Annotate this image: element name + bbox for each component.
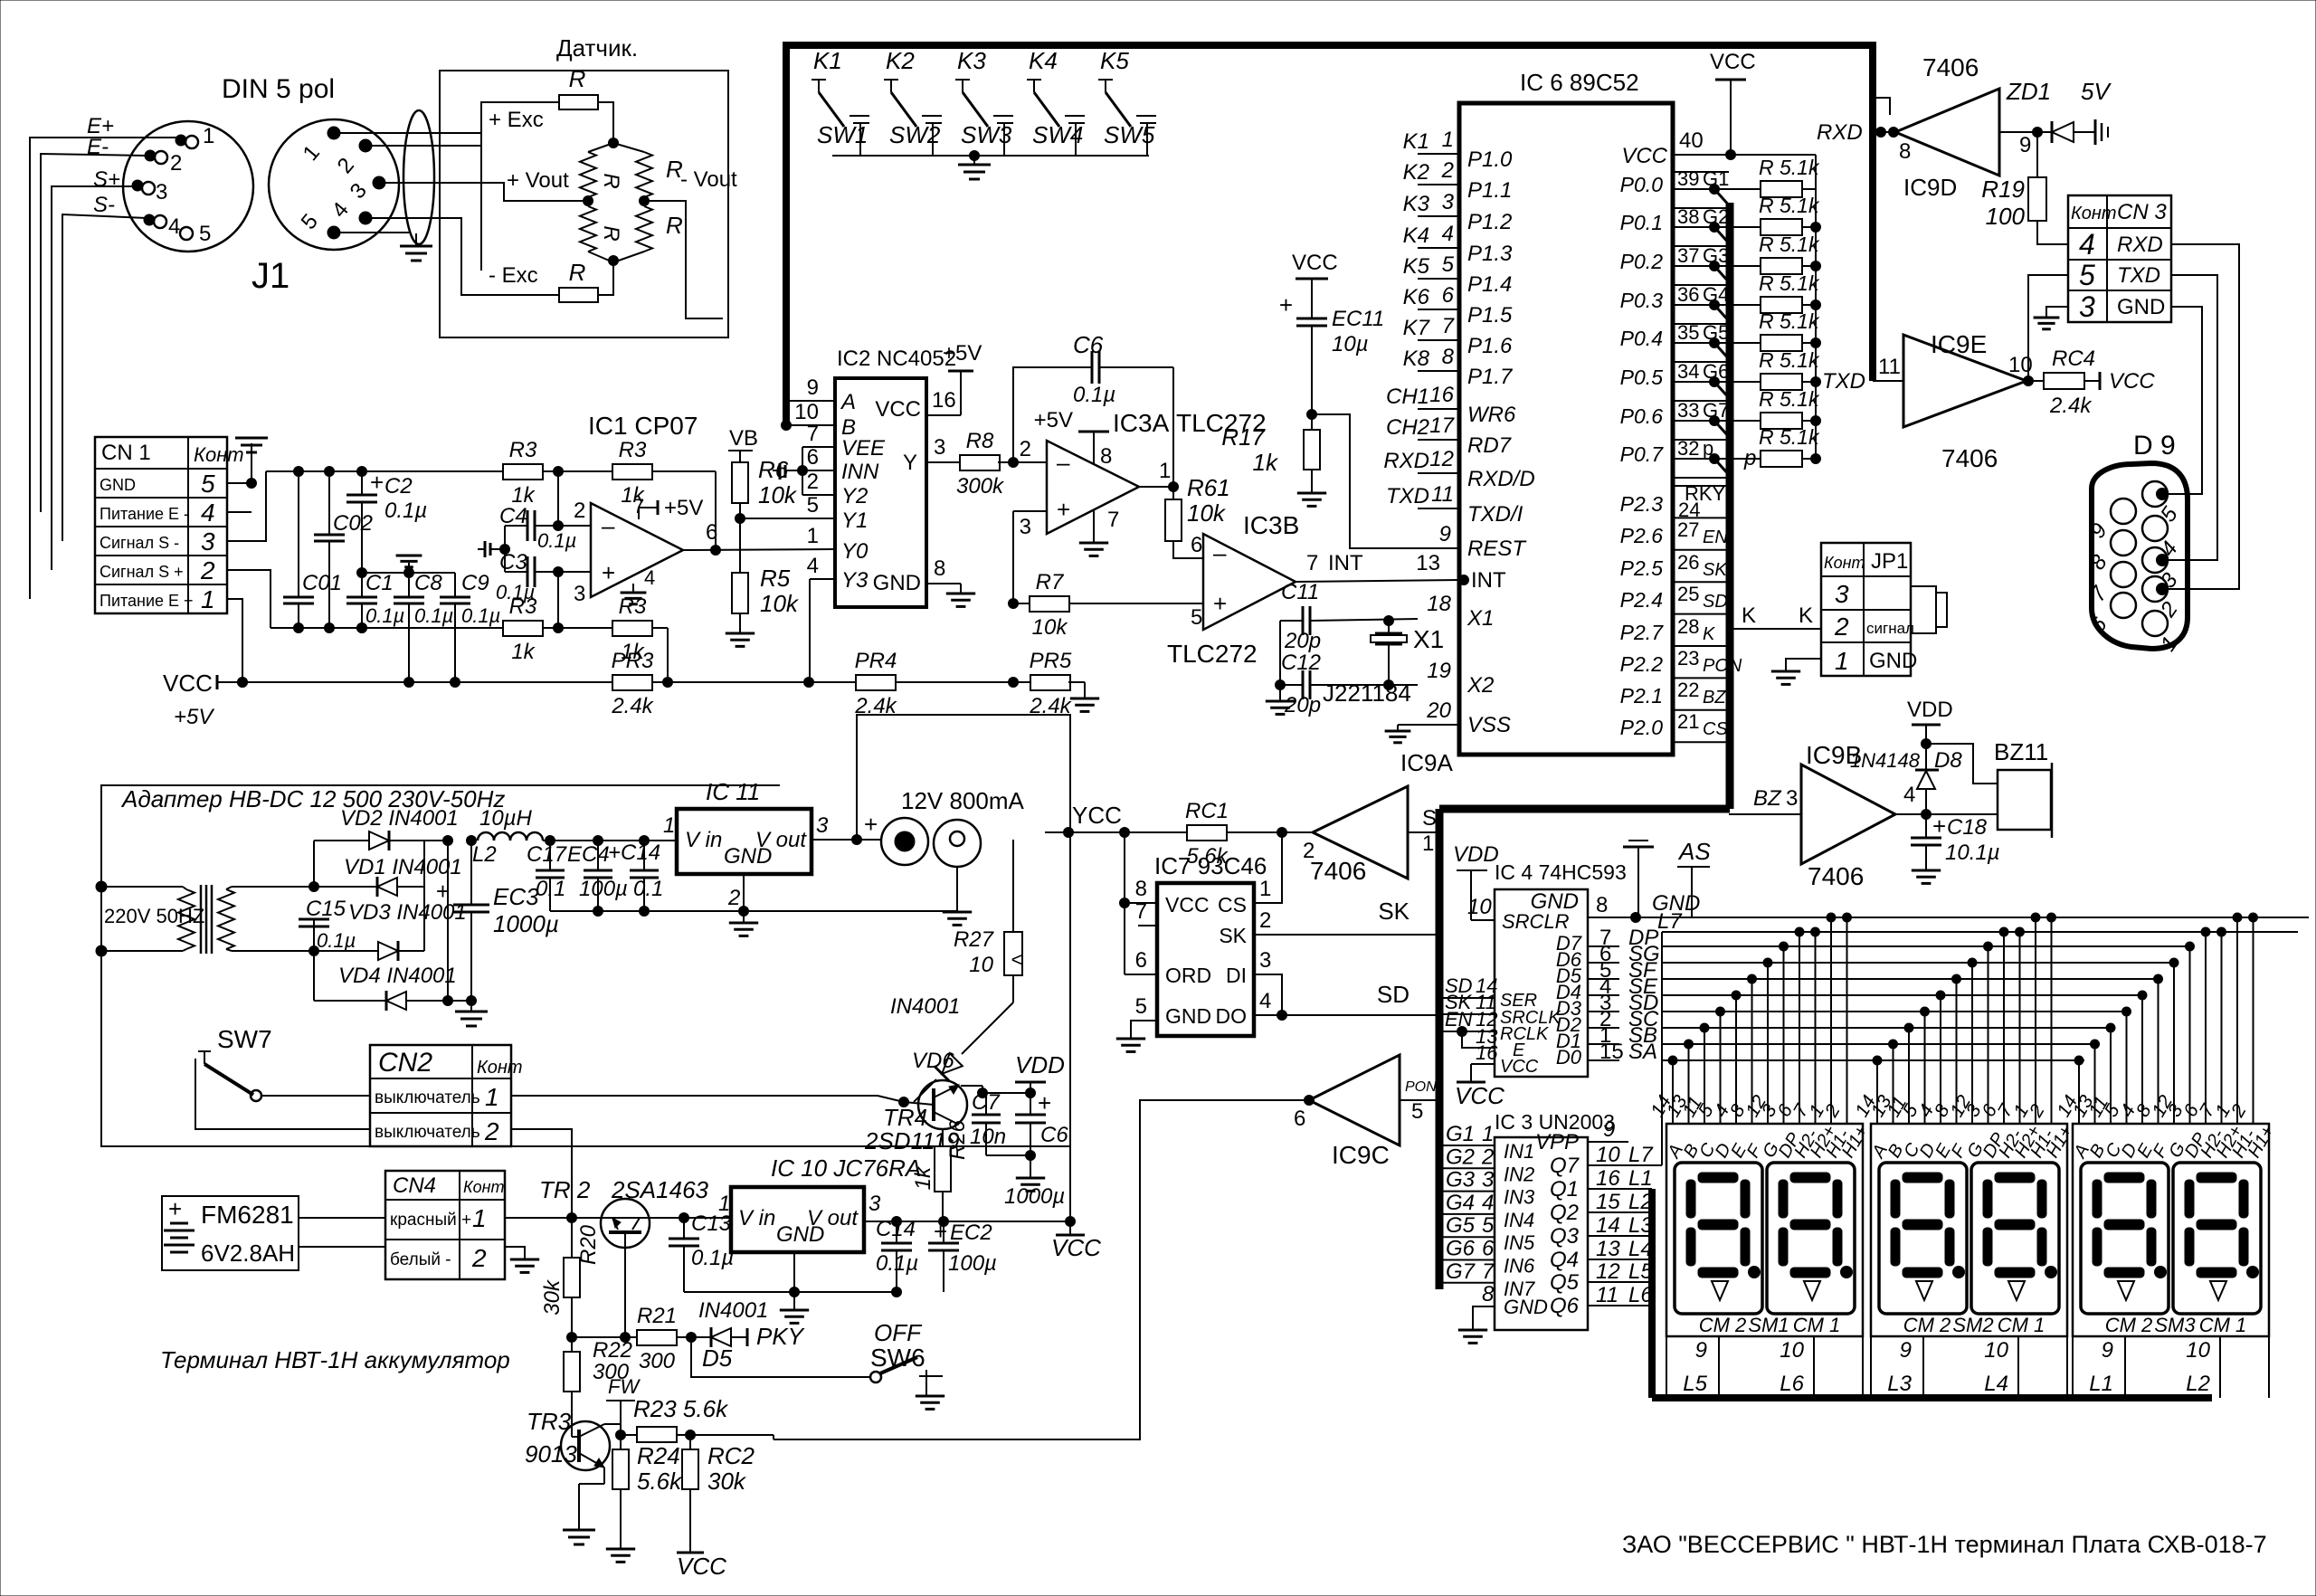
svg-text:C9: C9: [461, 571, 489, 595]
svg-text:K3: K3: [1403, 192, 1430, 216]
svg-text:R24: R24: [637, 1442, 680, 1469]
SW7 return wire: [195, 1059, 370, 1129]
capacitor C14 psu: [608, 836, 663, 917]
svg-text:VPP: VPP: [1535, 1130, 1579, 1154]
svg-text:7: 7: [1482, 1259, 1495, 1284]
display group 1 CM labels: [1699, 1314, 1841, 1336]
switch SW4 / key K4: [1027, 47, 1085, 156]
svg-text:R: R: [569, 259, 586, 286]
ground near IC4: [1623, 841, 1654, 917]
svg-text:–: –: [1213, 539, 1227, 566]
svg-text:GND: GND: [1165, 1004, 1211, 1028]
7-segment digit 6: [2173, 1163, 2261, 1314]
svg-text:0.1µ: 0.1µ: [537, 529, 576, 552]
svg-text:34: 34: [1677, 360, 1699, 383]
svg-text:3: 3: [574, 582, 585, 606]
svg-text:Q6: Q6: [1550, 1294, 1580, 1318]
IC4 74HC593 box: [1495, 889, 1588, 1077]
svg-text:C2: C2: [384, 474, 413, 499]
buzzer BZ11: [1994, 738, 2052, 838]
svg-text:D0: D0: [1556, 1046, 1582, 1069]
resistor R 5.1k row G2: [1759, 194, 1821, 235]
svg-text:G2: G2: [1446, 1145, 1475, 1169]
thick bus horizontal: [1439, 805, 1730, 813]
resistor R3 second: [612, 438, 716, 508]
MCU pin 38 G2 / P0.1: [1620, 205, 1761, 245]
svg-text:TXD: TXD: [1386, 484, 1429, 508]
svg-text:C4: C4: [499, 504, 527, 528]
IC10 JC76RA box: [718, 1154, 921, 1252]
svg-text:OFF: OFF: [874, 1319, 923, 1346]
svg-text:8: 8: [1100, 444, 1112, 469]
resistor R 5.1k row G7: [1759, 387, 1821, 429]
svg-text:IN4001: IN4001: [698, 1298, 768, 1323]
svg-text:0.1µ: 0.1µ: [691, 1246, 734, 1270]
svg-text:SD: SD: [1703, 592, 1728, 612]
svg-text:IC3A: IC3A: [1113, 409, 1170, 437]
svg-text:GND: GND: [100, 476, 136, 494]
connector table CN3: [2068, 195, 2171, 323]
svg-text:10k: 10k: [1032, 615, 1069, 640]
svg-text:PR4: PR4: [855, 649, 897, 673]
svg-text:C01: C01: [302, 571, 342, 595]
svg-text:+: +: [934, 1218, 947, 1245]
svg-text:K1: K1: [813, 47, 842, 74]
svg-text:R: R: [599, 225, 623, 241]
connector table CN1: [95, 437, 244, 613]
svg-text:10n: 10n: [970, 1125, 1006, 1149]
svg-text:R 5.1k: R 5.1k: [1759, 348, 1820, 372]
IC2 pin Y0: [807, 524, 868, 564]
switch SW5 / key K5: [1098, 47, 1156, 156]
svg-text:VD6: VD6: [912, 1049, 954, 1073]
display group 2 pin wires: [1851, 913, 2076, 1162]
svg-text:R19: R19: [1981, 176, 2025, 203]
svg-text:FM6281: FM6281: [201, 1201, 294, 1229]
capacitor C12: [1280, 651, 1418, 717]
svg-text:R27: R27: [954, 927, 995, 952]
svg-text:IC 4 74HC593: IC 4 74HC593: [1495, 860, 1627, 884]
wire CN2 pin1 to TR4 base: [511, 1095, 878, 1097]
svg-text:+: +: [1057, 496, 1070, 523]
svg-text:38: 38: [1677, 205, 1699, 228]
svg-text:G2: G2: [1703, 205, 1729, 228]
node C1/C8 gnd rail: [357, 568, 456, 578]
svg-text:+: +: [370, 469, 384, 496]
wire pin4 to -Exc: [365, 218, 559, 295]
svg-text:0.1µ: 0.1µ: [496, 581, 535, 603]
svg-text:P0.7: P0.7: [1620, 442, 1665, 466]
capacitor C17: [527, 841, 568, 911]
shield ground: [400, 233, 432, 261]
resistor R5: [732, 565, 800, 617]
svg-text:AS: AS: [1677, 838, 1711, 865]
svg-text:P1.3: P1.3: [1467, 242, 1513, 266]
svg-text:R22: R22: [593, 1338, 632, 1363]
svg-text:Q1: Q1: [1550, 1177, 1579, 1202]
IC7 gnd: [1116, 1021, 1157, 1051]
svg-text:0.1µ: 0.1µ: [384, 499, 427, 523]
svg-text:R 5.1k: R 5.1k: [1759, 425, 1820, 449]
svg-text:1: 1: [1422, 831, 1434, 856]
svg-text:R 5.1k: R 5.1k: [1759, 194, 1820, 217]
svg-text:K2: K2: [1403, 160, 1429, 185]
svg-text:6: 6: [1294, 1107, 1305, 1131]
CN3 gnd: [2034, 307, 2068, 329]
svg-text:8: 8: [1482, 1282, 1495, 1306]
inverter IC9D 7406: [1895, 89, 1999, 176]
svg-text:+ Vout: + Vout: [507, 168, 569, 193]
svg-text:VCC: VCC: [2109, 369, 2155, 394]
svg-text:PKY: PKY: [756, 1323, 805, 1350]
svg-text:9: 9: [1695, 1338, 1707, 1363]
svg-text:RC2: RC2: [707, 1442, 755, 1469]
wire pin5: [334, 232, 409, 233]
IC7 SK wire: [1254, 898, 1439, 935]
svg-text:CS: CS: [1703, 719, 1728, 739]
svg-text:0.1µ: 0.1µ: [1073, 383, 1115, 407]
capacitor C6 feedback: [1013, 331, 1173, 462]
svg-text:IN2: IN2: [1504, 1163, 1534, 1185]
svg-text:IC1 CP07: IC1 CP07: [588, 412, 698, 440]
svg-text:P1.5: P1.5: [1467, 303, 1513, 328]
IC7 93C46 box: [1157, 883, 1254, 1036]
svg-text:DIN 5 pol: DIN 5 pol: [222, 74, 335, 104]
resistor R 5.1k row G1: [1759, 156, 1820, 197]
svg-text:100µ: 100µ: [579, 877, 628, 901]
svg-text:1N4148: 1N4148: [1850, 749, 1921, 772]
svg-text:16: 16: [1429, 383, 1454, 407]
svg-text:5.6k: 5.6k: [637, 1468, 683, 1495]
svg-text:L2: L2: [2186, 1372, 2210, 1396]
svg-text:GND: GND: [776, 1222, 824, 1247]
MCU pin 36 G4 / P0.3: [1620, 283, 1761, 323]
svg-text:красный +: красный +: [390, 1211, 471, 1230]
IC9A to bus stub: [1408, 806, 1439, 856]
svg-text:12V 800mA: 12V 800mA: [901, 787, 1025, 814]
svg-text:R61: R61: [1187, 474, 1230, 501]
svg-text:10.1µ: 10.1µ: [1945, 841, 2000, 865]
svg-text:8: 8: [1899, 139, 1911, 164]
svg-text:S+: S+: [93, 167, 120, 192]
battery FM6281: [162, 1195, 299, 1270]
IC2 pin Y/3 and R8: [903, 429, 1047, 499]
svg-text:7406: 7406: [1310, 857, 1366, 885]
svg-text:3: 3: [816, 813, 829, 838]
svg-text:21: 21: [1677, 710, 1699, 733]
svg-text:K1: K1: [1403, 129, 1429, 154]
resistor column right bus: [1815, 155, 1817, 459]
svg-text:+ Exc: + Exc: [489, 108, 544, 132]
resistor PR3: [611, 649, 856, 718]
svg-text:Конт: Конт: [2071, 204, 2117, 223]
svg-text:1000µ: 1000µ: [1004, 1184, 1065, 1209]
VDD symbol TR4: [1015, 1051, 1065, 1093]
svg-text:R23 5.6k: R23 5.6k: [633, 1395, 729, 1422]
IC2 pin A: [786, 375, 856, 414]
svg-text:4: 4: [1259, 989, 1271, 1013]
svg-text:16: 16: [1596, 1166, 1620, 1191]
svg-text:CM 1: CM 1: [2199, 1314, 2247, 1336]
svg-text:27: 27: [1677, 518, 1699, 541]
svg-text:VCC: VCC: [677, 1553, 726, 1580]
svg-text:Датчик.: Датчик.: [556, 34, 638, 62]
svg-text:EC11: EC11: [1332, 307, 1384, 331]
svg-text:VD1 IN4001: VD1 IN4001: [344, 855, 462, 879]
inverter IC9B 7406: [1801, 765, 1895, 864]
CN1 ground: [227, 438, 268, 483]
svg-text:G3: G3: [1703, 244, 1729, 267]
display group 1 pin wires: [1647, 913, 1872, 1162]
wire YCC: [1045, 802, 1187, 838]
svg-text:10: 10: [1984, 1338, 2008, 1363]
svg-text:16: 16: [1476, 1041, 1498, 1064]
battery wires: [299, 1218, 385, 1247]
7-segment digit 1: [1675, 1163, 1762, 1314]
connector J1 left circle: [123, 121, 253, 252]
capacitor C7: [970, 1090, 1006, 1155]
svg-text:K4: K4: [1403, 223, 1429, 248]
svg-text:2.4k: 2.4k: [611, 694, 654, 718]
svg-text:SW5: SW5: [1104, 121, 1155, 148]
svg-text:2: 2: [1834, 613, 1849, 641]
resistor PR5: [1029, 649, 1085, 718]
svg-text:–: –: [1057, 449, 1070, 476]
svg-text:G7: G7: [1703, 399, 1729, 422]
IC4 pin D6 / bus SG: [1556, 942, 2174, 971]
signal bottom rail: [271, 623, 503, 633]
svg-text:GND: GND: [1531, 889, 1579, 914]
bridge top node: [609, 138, 619, 148]
svg-text:IC 10 JC76RA: IC 10 JC76RA: [771, 1154, 921, 1182]
svg-text:VCC: VCC: [1455, 1082, 1504, 1109]
svg-text:0.1µ: 0.1µ: [365, 604, 404, 627]
TR2 wire through: [601, 1213, 731, 1223]
svg-text:SW4: SW4: [1032, 121, 1083, 148]
IC2 pin VCC/16: [875, 341, 982, 422]
wire pin3 to +Vout: [379, 182, 440, 184]
wire K to JP1: [1729, 603, 1821, 629]
svg-text:P2.4: P2.4: [1620, 588, 1663, 612]
svg-text:+5V: +5V: [664, 496, 703, 520]
svg-text:K: K: [1799, 603, 1813, 628]
svg-text:4: 4: [807, 554, 819, 578]
svg-text:5: 5: [199, 222, 211, 246]
transistor TR3 9013: [525, 1408, 610, 1470]
switch SW7: [198, 1025, 272, 1101]
MCU pin cell 25 SD / P2.4: [1620, 583, 1728, 612]
FW net label: [606, 1375, 641, 1435]
resistor R 5.1k row G5: [1759, 309, 1821, 351]
svg-text:G5: G5: [1703, 321, 1729, 344]
svg-text:1: 1: [201, 585, 215, 613]
wire SW7 to CN2: [261, 1095, 370, 1097]
svg-text:CM 2: CM 2: [2105, 1314, 2153, 1336]
display group 2 bottom cells: [1871, 1336, 2067, 1398]
resistor R 5.1k row G4: [1759, 271, 1821, 313]
svg-text:R20: R20: [576, 1224, 601, 1265]
svg-text:R5: R5: [760, 565, 791, 592]
resistor R3 fourth: [612, 594, 668, 682]
svg-text:SK: SK: [1219, 924, 1247, 947]
resistor RC1: [1185, 799, 1313, 869]
svg-text:VCC: VCC: [1500, 1057, 1539, 1077]
wire CN2 pin2 down: [511, 1129, 572, 1218]
svg-text:GND: GND: [724, 844, 772, 869]
adapter box outline: [101, 785, 1070, 1146]
svg-text:1: 1: [1442, 128, 1454, 152]
switch SW6: [870, 1319, 943, 1396]
svg-text:C17: C17: [527, 842, 568, 867]
IC4 pin D0 / bus SA: [1556, 1040, 2084, 1069]
svg-text:30k: 30k: [540, 1278, 565, 1316]
svg-text:0.1µ: 0.1µ: [414, 604, 453, 627]
svg-text:R8: R8: [966, 429, 994, 453]
svg-text:R: R: [569, 65, 586, 92]
wire CN1 S- up: [227, 471, 266, 541]
svg-text:IN1: IN1: [1504, 1140, 1534, 1163]
resistor R 5.1k row p: [1759, 425, 1821, 467]
svg-text:IC9D: IC9D: [1903, 174, 1957, 201]
IC4 pin D2 / bus SC: [1556, 1007, 2114, 1036]
svg-text:+: +: [602, 559, 615, 586]
resistor PR4: [804, 649, 1031, 718]
RXD net and pulse symbol: [1817, 98, 1899, 145]
svg-text:5: 5: [1135, 994, 1147, 1019]
svg-text:22: 22: [1677, 679, 1699, 701]
svg-text:IC2 NC4052: IC2 NC4052: [837, 347, 956, 371]
svg-text:PR5: PR5: [1030, 649, 1072, 673]
IC3 right pins: [1535, 1117, 1654, 1318]
IC9C stub to bus: [1400, 1099, 1439, 1101]
connector table CN2: [370, 1045, 523, 1146]
svg-text:P2.1: P2.1: [1620, 684, 1663, 708]
svg-text:K: K: [1742, 603, 1756, 628]
svg-text:IC9E: IC9E: [1931, 330, 1987, 358]
svg-text:VEE: VEE: [841, 436, 886, 461]
svg-text:2: 2: [200, 556, 215, 584]
svg-text:RD7: RD7: [1467, 433, 1513, 458]
svg-text:Питание E +: Питание E +: [100, 592, 194, 610]
svg-text:9: 9: [2019, 133, 2031, 157]
IC4 pin D5 / bus SF: [1556, 958, 2159, 987]
svg-text:0.1µ: 0.1µ: [317, 929, 356, 952]
MCU pin VSS: [1385, 698, 1511, 743]
svg-text:30k: 30k: [707, 1468, 747, 1495]
svg-text:19: 19: [1427, 659, 1451, 683]
svg-text:6: 6: [1191, 533, 1202, 557]
svg-text:Терминал НВТ-1Н аккумулятор: Терминал НВТ-1Н аккумулятор: [160, 1346, 510, 1373]
svg-text:20: 20: [1426, 698, 1451, 723]
MCU pin X1: [1427, 592, 1494, 631]
svg-text:CM 2: CM 2: [1903, 1314, 1951, 1336]
svg-text:IC9C: IC9C: [1332, 1141, 1390, 1169]
svg-text:8: 8: [1596, 893, 1608, 917]
svg-text:P1.7: P1.7: [1467, 365, 1514, 389]
svg-text:D5: D5: [702, 1344, 733, 1372]
wire BZ to IC9B: [1729, 786, 1801, 814]
svg-text:2SA1463: 2SA1463: [611, 1176, 709, 1203]
IC4 VCC pin16 symbol: [1455, 1064, 1504, 1109]
svg-text:Питание E -: Питание E -: [100, 505, 189, 523]
svg-text:S: S: [1422, 806, 1437, 831]
svg-text:GND: GND: [2117, 295, 2165, 319]
svg-text:SD: SD: [1377, 981, 1410, 1008]
PR5 ground: [1070, 682, 1099, 711]
IC10 out wire: [864, 1217, 1076, 1227]
bridge mid nodes: [584, 196, 593, 206]
svg-text:2: 2: [1259, 908, 1271, 933]
wire pin1 to +Exc: [334, 132, 440, 134]
signal top rail: [266, 467, 503, 477]
TR4 base node: [899, 1097, 909, 1107]
resistor RC2: [677, 1435, 755, 1580]
capacitor C3: [496, 550, 558, 603]
svg-text:VCC: VCC: [1292, 251, 1338, 275]
resistor R7: [1013, 570, 1203, 640]
svg-text:VCC: VCC: [1165, 893, 1210, 917]
wire CN3 TXD to D9 pin3: [2162, 275, 2217, 560]
wire CN3 GND to D9 pin5: [2162, 307, 2202, 494]
svg-text:TLC272: TLC272: [1167, 640, 1258, 668]
MCU pin cell 26 SK / P2.5: [1620, 551, 1729, 580]
svg-text:L6: L6: [1780, 1372, 1804, 1396]
svg-text:R17: R17: [1221, 423, 1266, 451]
svg-text:p: p: [1743, 446, 1756, 470]
svg-text:CS: CS: [1218, 893, 1247, 917]
IC3 input pins G1-G7: [1439, 1122, 1535, 1300]
D9 pins right column: [2142, 481, 2183, 656]
svg-text:7: 7: [807, 422, 819, 446]
svg-text:CH1: CH1: [1386, 385, 1429, 409]
crystal X1: [1371, 621, 1444, 685]
svg-text:3: 3: [1442, 190, 1455, 214]
capacitor C6 big: [986, 1089, 1068, 1209]
svg-text:CM 1: CM 1: [1793, 1314, 1841, 1336]
svg-text:10k: 10k: [1187, 499, 1227, 527]
JP1 ground: [1771, 659, 1821, 684]
resistor R3 third: [503, 594, 612, 664]
thick bus right of MCU: [1726, 203, 1734, 809]
svg-text:33: 33: [1677, 399, 1699, 422]
inverter IC9A 7406: [1313, 786, 1408, 879]
svg-text:L3: L3: [1887, 1372, 1912, 1396]
svg-text:E-: E-: [87, 135, 109, 159]
resistor R61: [1165, 474, 1230, 558]
wire CN1 E+ to VCC rail: [227, 599, 248, 688]
svg-text:7: 7: [1107, 508, 1119, 532]
svg-text:RC4: RC4: [2052, 347, 2095, 371]
wire C6 right to output: [1172, 367, 1174, 487]
svg-text:6: 6: [1442, 283, 1455, 308]
svg-text:300: 300: [639, 1349, 676, 1373]
svg-text:10k: 10k: [758, 481, 798, 508]
IC10 gnd rail: [684, 1252, 902, 1323]
capacitor EC4: [567, 836, 628, 917]
resistor R27: [954, 840, 1022, 1002]
svg-text:12: 12: [1596, 1259, 1620, 1284]
svg-text:+5V: +5V: [174, 705, 214, 729]
svg-text:TR 2: TR 2: [539, 1176, 591, 1203]
capacitor C1: [346, 571, 404, 633]
resistor R22: [564, 1337, 632, 1437]
svg-text:Q2: Q2: [1550, 1201, 1579, 1225]
svg-text:TXD/I: TXD/I: [1467, 502, 1523, 527]
svg-text:K6: K6: [1403, 285, 1430, 309]
switch ground rail: [832, 151, 1149, 180]
svg-text:4: 4: [201, 499, 215, 527]
sensor box (Datchik): [440, 71, 728, 337]
